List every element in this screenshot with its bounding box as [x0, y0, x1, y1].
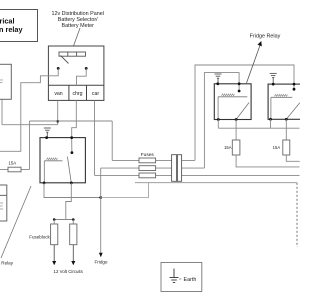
battery box B2 (cut off at left edge) — [0, 185, 7, 221]
wire drops to fuses — [53, 220, 55, 225]
relay K2 switch — [236, 103, 249, 120]
wire: link to dashed feed line — [101, 183, 149, 198]
svg-text:Fuseblock: Fuseblock — [29, 234, 50, 239]
fuse F1 body — [8, 167, 21, 172]
wire W2 to relay K2 — [204, 73, 239, 169]
wire: dashed feed line y182.7 — [135, 182, 297, 184]
relay K2 pins — [216, 82, 219, 85]
svg-text:chrg: chrg — [72, 91, 82, 97]
svg-text:Fridge Relay: Fridge Relay — [250, 34, 281, 40]
relay K1 coil — [44, 161, 62, 183]
svg-text:Battery Meter: Battery Meter — [62, 23, 95, 29]
distribution panel U1 box — [48, 46, 104, 100]
title box — [0, 10, 38, 42]
relay K2 pin stub — [238, 84, 240, 91]
fuse F6 — [283, 140, 290, 155]
label: 12v Distribution Panel / Battery Selector / Battery Meter — [51, 11, 103, 29]
wire: relay K3 out to fuse F6 — [285, 119, 287, 140]
relay K3 pins — [272, 83, 275, 86]
wire: chrg cell down to relay coil pin — [72, 100, 77, 137]
svg-text:Earth: Earth — [184, 277, 197, 283]
wire: line1 y160.5 — [112, 159, 195, 161]
relay K1 (main relay) box — [40, 138, 85, 183]
wire: battery box stub — [1, 99, 3, 124]
wire W1 to relay K3 — [195, 65, 294, 160]
relay K2 box — [214, 84, 251, 120]
relay K1 switch — [67, 157, 71, 183]
arrow 12V circuits left — [53, 245, 55, 262]
relay K3 pin stub — [293, 84, 295, 89]
wire: relay K2 out to fuse F5 — [235, 120, 237, 141]
arrow 12V circuits right — [72, 245, 74, 262]
fuse row F4 — [139, 173, 156, 178]
wire: relay K1 to fuseblock — [66, 183, 72, 220]
node van junction — [56, 120, 59, 123]
wire: fuse F6 out — [286, 155, 300, 161]
connector J1 — [172, 155, 177, 182]
selector meter bar — [59, 52, 86, 64]
leader line to distribution panel — [74, 28, 81, 46]
earth box — [161, 263, 202, 292]
panel terminal node right — [85, 67, 88, 70]
dashed drop — [296, 183, 298, 247]
leader arrow fridge relay — [247, 45, 261, 84]
wire: line2 y168 — [101, 167, 205, 169]
wire: panel left terminal out to left — [0, 68, 58, 151]
battery box B1 (cut off at left edge) — [0, 64, 11, 99]
fuse row F3 — [139, 166, 156, 171]
fuse F1 15A leads — [0, 169, 8, 171]
panel terminal node left — [57, 67, 60, 70]
wire: fuse bus horizontal y121 — [30, 120, 113, 122]
wire: fuseblock bus — [54, 219, 73, 221]
svg-text:car: car — [92, 91, 99, 97]
svg-text:Fuses: Fuses — [141, 152, 155, 158]
fuseblock fuse FB1 — [51, 224, 58, 245]
ground (main relay) — [44, 128, 51, 138]
wire: panel right terminal to chrg cell — [77, 68, 87, 85]
fuse row F2 — [139, 158, 156, 163]
leader line main relay — [1, 186, 31, 258]
wire: relay supply bus y128.2 — [217, 120, 219, 129]
ground (relay K2) — [215, 74, 222, 84]
relay K3 switch — [286, 103, 300, 120]
svg-text:Fridge: Fridge — [94, 259, 107, 264]
wire: battery feed y124.7 — [2, 124, 58, 126]
wire: van cell down — [57, 100, 59, 124]
wire: riser x112.6 from bus to line1 — [111, 121, 113, 160]
relay K1 pin stub — [71, 138, 73, 153]
ground symbol (earth) — [170, 269, 179, 283]
svg-text:n relay: n relay — [0, 25, 23, 34]
node fuseblock right — [72, 218, 75, 221]
svg-text:15A: 15A — [273, 145, 281, 150]
fuse F5 — [232, 140, 240, 155]
svg-text:12 Volt Circuits: 12 Volt Circuits — [54, 269, 84, 274]
svg-text:15A: 15A — [224, 145, 232, 150]
wire: line3 y175.7 — [95, 174, 300, 176]
wire: car cell down to lower bus — [94, 100, 96, 175]
svg-text:Main Relay: Main Relay — [0, 260, 14, 265]
relay K2 coil — [218, 97, 247, 120]
wire: riser fuse to bus — [29, 121, 31, 170]
wire: relay K1 output to fridge junction — [44, 183, 101, 198]
ground (relay K3) — [270, 73, 277, 84]
relay K3 box — [268, 84, 305, 119]
wire: fridge drop — [100, 168, 102, 253]
relay K3 coil — [271, 97, 292, 119]
svg-text:15A: 15A — [8, 161, 16, 166]
node fridge junction — [99, 196, 102, 199]
fuseblock fuse FB2 — [70, 224, 77, 245]
svg-text:van: van — [54, 91, 62, 97]
node fuseblock left — [53, 218, 56, 221]
panel cell labels — [54, 91, 99, 97]
wire: fuse F5 out — [236, 155, 299, 167]
relay K1 pins — [45, 136, 48, 139]
